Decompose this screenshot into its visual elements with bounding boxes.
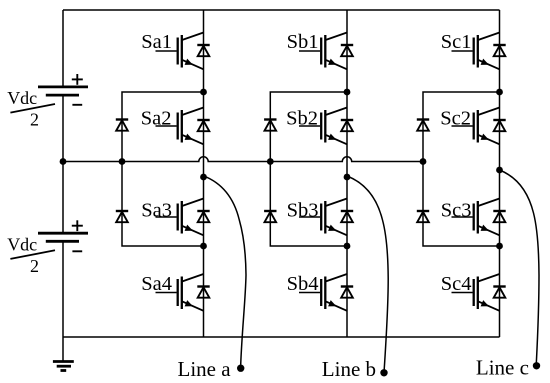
svg-text:2: 2 (30, 110, 39, 130)
svg-text:Vdc: Vdc (7, 88, 37, 108)
svg-text:Line b: Line b (322, 357, 376, 381)
svg-text:Line a: Line a (178, 357, 232, 381)
svg-text:Sb4: Sb4 (287, 273, 319, 295)
svg-text:Sb1: Sb1 (287, 31, 319, 53)
svg-text:Sc1: Sc1 (441, 31, 472, 53)
svg-text:Sc3: Sc3 (441, 200, 472, 222)
svg-text:Sc4: Sc4 (441, 273, 472, 295)
svg-text:Sb2: Sb2 (286, 108, 318, 130)
svg-text:Sa4: Sa4 (141, 273, 172, 295)
svg-text:Sa3: Sa3 (141, 200, 172, 222)
svg-text:Vdc: Vdc (7, 234, 37, 254)
svg-text:Sa2: Sa2 (141, 108, 172, 130)
svg-text:Sb3: Sb3 (287, 200, 319, 222)
svg-text:2: 2 (30, 256, 39, 276)
svg-text:Sc2: Sc2 (440, 108, 471, 130)
svg-text:Sa1: Sa1 (141, 31, 172, 53)
svg-text:Line c: Line c (476, 356, 529, 380)
